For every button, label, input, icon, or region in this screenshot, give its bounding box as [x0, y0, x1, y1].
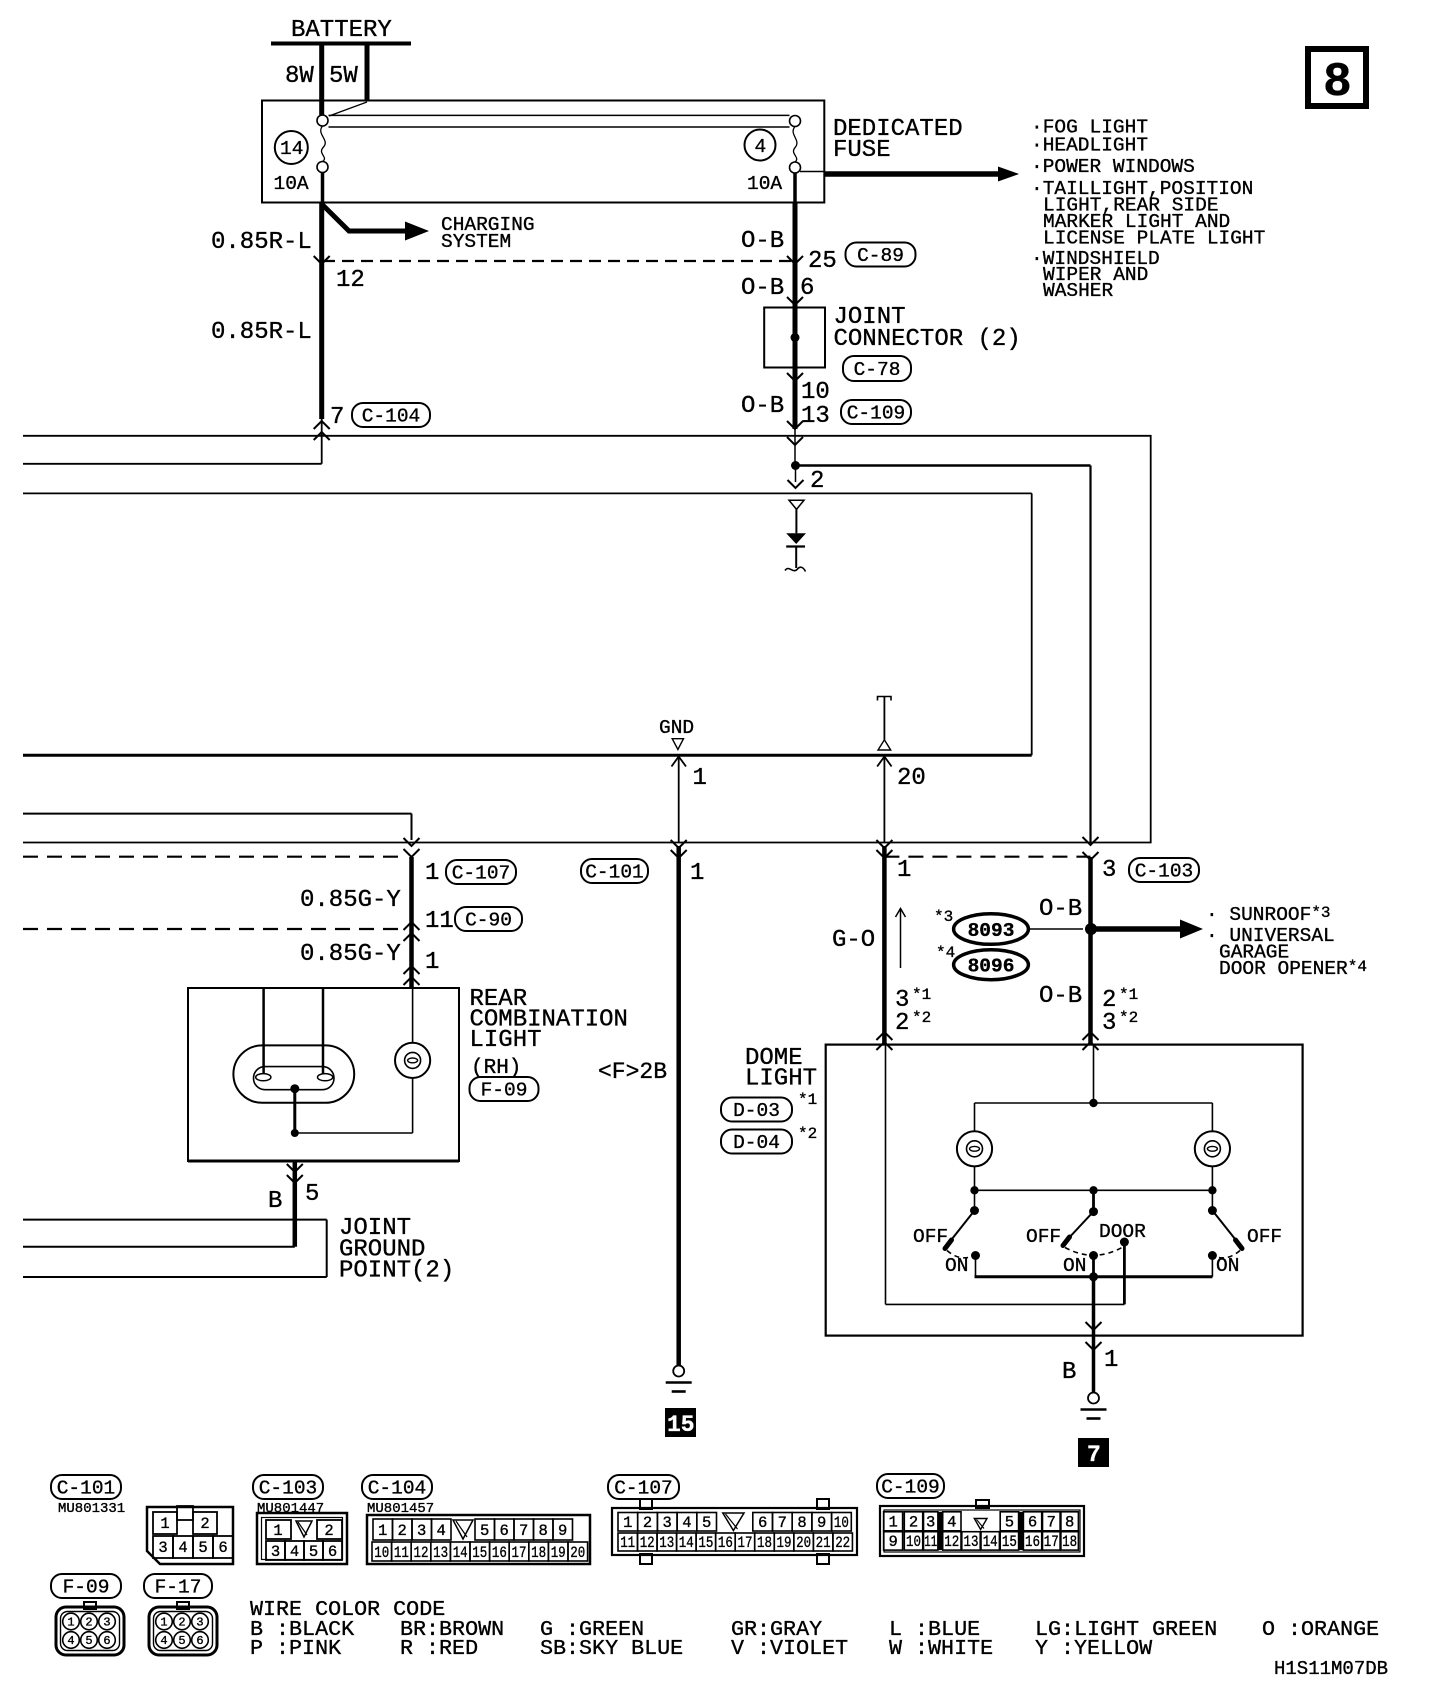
- svg-text:15: 15: [1002, 1533, 1017, 1551]
- wire 0.85G-Y upper: [409, 857, 414, 988]
- direction arrow beside G-O: [896, 909, 906, 969]
- switch right: [1208, 1190, 1282, 1277]
- node dome feed: [1089, 1099, 1097, 1107]
- svg-text:1: 1: [888, 1514, 897, 1532]
- svg-text:4: 4: [682, 1514, 691, 1532]
- svg-text:17: 17: [738, 1534, 753, 1552]
- svg-text:14: 14: [453, 1544, 468, 1562]
- label 0.85R-L upper: [211, 229, 312, 256]
- svg-text:17: 17: [1044, 1533, 1059, 1551]
- connector C-101 drawing: [147, 1506, 233, 1564]
- chevrons on C-101 wire: [671, 840, 687, 858]
- svg-text:G-O: G-O: [832, 927, 875, 954]
- fuse 4: [745, 116, 825, 203]
- svg-text:R :RED: R :RED: [400, 1636, 478, 1661]
- dedicated fuse label: [833, 116, 963, 164]
- crossing chevron at R-L wire: [314, 256, 330, 264]
- svg-text:0.85G-Y: 0.85G-Y: [300, 887, 401, 914]
- svg-text:<F>2B: <F>2B: [598, 1059, 667, 1085]
- pin label 10: [801, 379, 830, 406]
- svg-text:2: 2: [909, 1514, 918, 1532]
- option tag 8096: [954, 950, 1029, 980]
- svg-text:ON: ON: [945, 1255, 968, 1277]
- svg-text:20: 20: [796, 1534, 811, 1552]
- charging system arrow: [322, 204, 535, 253]
- wire C-104 pin7 stub to left: [23, 419, 322, 464]
- svg-text:10A: 10A: [747, 173, 782, 195]
- dashed line between dome wires: [884, 856, 1090, 858]
- svg-text:16: 16: [1025, 1533, 1040, 1551]
- wire to ETACS pin 2: [788, 466, 804, 489]
- document number: [1274, 1658, 1388, 1680]
- svg-text:WASHER: WASHER: [1043, 280, 1114, 302]
- label 0.85R-L lower: [211, 319, 312, 346]
- svg-text:16: 16: [718, 1534, 733, 1552]
- legend pill C-109: [877, 1474, 944, 1499]
- svg-text:C-101: C-101: [585, 862, 644, 884]
- dashed harness line at C-107: [23, 856, 403, 858]
- svg-text:H1S11M07DB: H1S11M07DB: [1274, 1658, 1388, 1680]
- svg-text:6: 6: [1028, 1514, 1037, 1532]
- pin label 11: [425, 908, 454, 935]
- dome lamp bus lower: [970, 1166, 1216, 1194]
- pin label 13: [801, 403, 830, 430]
- svg-text:5: 5: [305, 1181, 319, 1208]
- svg-text:6: 6: [500, 1522, 509, 1540]
- svg-text:POINT(2): POINT(2): [339, 1258, 454, 1285]
- svg-text:2: 2: [643, 1514, 652, 1532]
- dome switch common bus: [975, 1272, 1213, 1281]
- asterisk 2: [798, 1125, 817, 1143]
- svg-text:O-B: O-B: [1039, 896, 1082, 923]
- svg-text:7: 7: [330, 404, 344, 431]
- svg-text:2: 2: [324, 1522, 333, 1540]
- sunroof load list: [1206, 904, 1367, 980]
- pin labels 3*1 2*2 left: [895, 986, 931, 1037]
- svg-text:13: 13: [659, 1534, 674, 1552]
- legend part number MU801447: [257, 1501, 324, 1517]
- legend pill F-17: [144, 1574, 212, 1599]
- svg-text:FUSE: FUSE: [833, 137, 891, 164]
- svg-text:3: 3: [196, 1616, 203, 1630]
- svg-text:SB:SKY BLUE: SB:SKY BLUE: [540, 1636, 683, 1661]
- loop harness line around unit: [23, 436, 1151, 843]
- svg-text:OFF: OFF: [1247, 1226, 1282, 1248]
- svg-text:*2: *2: [1119, 1009, 1138, 1027]
- chevrons at rear light box top: [404, 966, 420, 985]
- arrow to sunroof loads: [1091, 920, 1203, 939]
- svg-text:0.85G-Y: 0.85G-Y: [300, 941, 401, 968]
- svg-text:C-109: C-109: [847, 403, 906, 425]
- connector pill C-109: [841, 400, 911, 425]
- svg-text:GND: GND: [659, 717, 694, 739]
- pin 1 label: [693, 765, 707, 792]
- pin 1 arrow (GND): [672, 756, 687, 842]
- svg-text:5: 5: [309, 1543, 318, 1561]
- svg-text:C-107: C-107: [452, 863, 511, 885]
- label G-O: [832, 927, 875, 954]
- arrow to dedicated fuse loads: [824, 167, 1019, 182]
- dome light box: [826, 1045, 1303, 1336]
- svg-text:7: 7: [1047, 1514, 1056, 1532]
- label O-B upper: [741, 228, 784, 255]
- pin 7 label: [330, 404, 344, 431]
- pin label 1 C-107: [425, 860, 439, 887]
- svg-text:18: 18: [531, 1544, 546, 1562]
- label 5W: [329, 63, 358, 90]
- connector pill F-09: [470, 1077, 539, 1102]
- svg-text:V :VIOLET: V :VIOLET: [731, 1636, 848, 1661]
- svg-text:6: 6: [758, 1514, 767, 1532]
- svg-text:2: 2: [895, 1010, 909, 1037]
- tail lamp dual filament bulb: [233, 1045, 354, 1102]
- wire to side marker lamp: [295, 1078, 413, 1133]
- pin label 1 C-101: [690, 860, 704, 887]
- svg-text:5: 5: [1005, 1514, 1014, 1532]
- pin label 3 dome: [1102, 857, 1116, 884]
- svg-text:C-103: C-103: [1135, 861, 1194, 883]
- node at bulb base: [290, 1084, 299, 1093]
- pin label 6: [800, 275, 814, 302]
- svg-text:D-04: D-04: [733, 1132, 780, 1154]
- svg-text:C-109: C-109: [881, 1477, 940, 1499]
- GND label: [659, 717, 694, 750]
- svg-text:·HEADLIGHT: ·HEADLIGHT: [1031, 135, 1148, 157]
- svg-text:F-09: F-09: [481, 1080, 528, 1102]
- legend pill F-09: [51, 1574, 121, 1599]
- dome lamp right: [1195, 1131, 1230, 1166]
- wire 0.85R-L from fuse 14: [319, 203, 324, 420]
- battery bus bar: [271, 42, 411, 46]
- dome lamp bus upper: [975, 1103, 1213, 1131]
- svg-text:11: 11: [924, 1533, 937, 1551]
- svg-text:10A: 10A: [274, 173, 309, 195]
- svg-text:C-103: C-103: [259, 1478, 318, 1500]
- svg-text:5: 5: [85, 1634, 92, 1648]
- pin labels 2*1 3*2 right: [1102, 986, 1138, 1037]
- fuse box: [262, 101, 824, 203]
- svg-text:W :WHITE: W :WHITE: [889, 1636, 993, 1661]
- asterisk 3: [934, 908, 953, 926]
- svg-text:P :PINK: P :PINK: [250, 1636, 341, 1661]
- connector F-17 drawing: [149, 1602, 217, 1655]
- svg-text:C-78: C-78: [854, 359, 901, 381]
- label O-B lower: [741, 393, 784, 420]
- connector pill C-103: [1129, 858, 1199, 883]
- svg-text:2: 2: [85, 1616, 92, 1630]
- chevrons at C-104 wire end: [314, 421, 330, 440]
- ground id box 15: [665, 1408, 696, 1438]
- svg-text:*3: *3: [934, 908, 953, 926]
- svg-text:8096: 8096: [968, 956, 1015, 978]
- svg-text:ON: ON: [1063, 1255, 1086, 1277]
- asterisk 4: [936, 944, 955, 962]
- connector pill D-04: [721, 1130, 792, 1155]
- svg-text:12: 12: [944, 1533, 959, 1551]
- svg-text:O-B: O-B: [1039, 983, 1082, 1010]
- fuse 14: [274, 115, 329, 203]
- svg-text:1: 1: [273, 1522, 282, 1540]
- node sunroof branch: [1085, 923, 1097, 935]
- svg-text:11: 11: [394, 1544, 409, 1562]
- pin label 12: [336, 267, 365, 294]
- svg-text:16: 16: [492, 1544, 507, 1562]
- svg-text:SYSTEM: SYSTEM: [441, 231, 511, 253]
- label 0.85G-Y lower: [300, 941, 401, 968]
- svg-text:18: 18: [1062, 1533, 1077, 1551]
- svg-text:4: 4: [290, 1543, 299, 1561]
- svg-text:8: 8: [539, 1522, 548, 1540]
- svg-text:DOOR: DOOR: [1099, 1221, 1146, 1243]
- svg-text:13: 13: [964, 1533, 979, 1551]
- svg-text:*2: *2: [798, 1125, 817, 1143]
- wire bulb base down: [293, 1089, 296, 1133]
- battery label: [291, 17, 392, 44]
- svg-text:6: 6: [218, 1539, 227, 1557]
- svg-text:7: 7: [1087, 1442, 1101, 1468]
- ground symbol 7: [1081, 1393, 1107, 1419]
- pin 20 internal symbol: [878, 697, 892, 751]
- wire thin to junction: [794, 429, 796, 466]
- label 8W: [285, 63, 314, 90]
- label O-B mid: [741, 275, 784, 302]
- wire lamp to box top: [412, 988, 414, 1043]
- svg-text:14: 14: [983, 1533, 998, 1551]
- svg-text:3: 3: [1102, 857, 1116, 884]
- svg-text:14: 14: [280, 138, 303, 160]
- pin label 5: [305, 1181, 319, 1208]
- svg-text:3: 3: [103, 1616, 110, 1630]
- svg-text:5: 5: [480, 1522, 489, 1540]
- chevrons on G-O wire top: [876, 840, 892, 858]
- svg-text:10: 10: [374, 1544, 389, 1562]
- svg-text:O :ORANGE: O :ORANGE: [1262, 1617, 1379, 1642]
- chevrons below rear light box: [287, 1164, 303, 1183]
- node at rear light internal junction: [291, 1129, 299, 1137]
- svg-text:12: 12: [640, 1534, 655, 1552]
- svg-text:LIGHT: LIGHT: [745, 1066, 817, 1093]
- diode D in unit: [785, 500, 806, 571]
- connector pill C-78: [843, 356, 911, 381]
- svg-text:*1: *1: [912, 986, 931, 1004]
- svg-text:6: 6: [103, 1634, 110, 1648]
- pin 20 arrow: [877, 756, 891, 842]
- svg-text:19: 19: [777, 1534, 792, 1552]
- svg-text:8093: 8093: [968, 920, 1015, 942]
- svg-text:C-107: C-107: [614, 1478, 673, 1500]
- svg-text:5: 5: [702, 1514, 711, 1532]
- switch middle: [1026, 1190, 1146, 1277]
- svg-text:13: 13: [433, 1544, 448, 1562]
- side marker lamp bulb: [395, 1043, 430, 1078]
- svg-text:20: 20: [897, 765, 926, 792]
- chevron below joint connector: [787, 373, 803, 381]
- svg-text:O-B: O-B: [741, 228, 784, 255]
- svg-text:LICENSE PLATE LIGHT: LICENSE PLATE LIGHT: [1043, 228, 1265, 250]
- wire color code row 1: [250, 1617, 1379, 1642]
- svg-text:2: 2: [398, 1522, 407, 1540]
- svg-text:7: 7: [778, 1514, 787, 1532]
- svg-text:6: 6: [328, 1543, 337, 1561]
- pin label 1 dome: [897, 857, 911, 884]
- svg-text:O-B: O-B: [741, 275, 784, 302]
- label O-B dome lower: [1039, 983, 1082, 1010]
- connector C-104 drawing: [367, 1515, 590, 1564]
- wire 5W battery feed: [365, 45, 370, 101]
- svg-text:8: 8: [797, 1514, 806, 1532]
- svg-text:4: 4: [67, 1634, 74, 1648]
- svg-text:3: 3: [663, 1514, 672, 1532]
- svg-text:F-17: F-17: [155, 1577, 202, 1599]
- label B dome: [1062, 1359, 1076, 1386]
- svg-text:19: 19: [551, 1544, 566, 1562]
- connector pill C-107: [446, 860, 516, 885]
- svg-text:3: 3: [926, 1514, 935, 1532]
- svg-text:8: 8: [1323, 56, 1352, 110]
- connector F-09 drawing: [56, 1602, 124, 1655]
- harness tag F 2B: [598, 1059, 667, 1085]
- svg-text:7: 7: [519, 1522, 528, 1540]
- svg-text:· SUNROOF*3: · SUNROOF*3: [1206, 904, 1331, 926]
- wire B to joint ground: [293, 1161, 298, 1247]
- svg-text:8: 8: [1065, 1514, 1074, 1532]
- svg-text:10: 10: [801, 379, 830, 406]
- svg-text:1: 1: [425, 860, 439, 887]
- svg-text:4: 4: [437, 1522, 446, 1540]
- svg-text:15: 15: [667, 1412, 695, 1438]
- svg-text:22: 22: [835, 1534, 850, 1552]
- svg-text:LIGHT: LIGHT: [470, 1027, 542, 1054]
- rear light label: [470, 986, 628, 1080]
- svg-text:5: 5: [178, 1634, 185, 1648]
- svg-text:1: 1: [425, 949, 439, 976]
- chevrons at C-107 pin1: [404, 838, 420, 857]
- connector C-109 drawing: [880, 1500, 1084, 1556]
- svg-text:0.85R-L: 0.85R-L: [211, 319, 312, 346]
- svg-text:MU801447: MU801447: [257, 1501, 324, 1517]
- svg-text:4: 4: [178, 1539, 187, 1557]
- dome light label: [745, 1045, 817, 1093]
- joint connector C-78: [764, 296, 1021, 372]
- svg-text:*1: *1: [798, 1091, 817, 1109]
- wire O-B to C-109: [793, 381, 798, 429]
- svg-text:MU801331: MU801331: [58, 1501, 125, 1517]
- svg-text:1: 1: [378, 1522, 387, 1540]
- connector C-103 drawing: [257, 1513, 347, 1564]
- svg-text:C-101: C-101: [57, 1478, 116, 1500]
- crossing chevron at O-B wire: [787, 256, 803, 264]
- pin label 25: [808, 248, 837, 275]
- svg-text:*2: *2: [912, 1009, 931, 1027]
- svg-text:10: 10: [834, 1514, 849, 1532]
- svg-text:17: 17: [512, 1544, 527, 1562]
- svg-text:4: 4: [160, 1634, 167, 1648]
- svg-text:*4: *4: [936, 944, 955, 962]
- dedicated fuse load list: [1031, 117, 1265, 303]
- joint ground point: [23, 1220, 327, 1277]
- wire color code row 2: [250, 1636, 1152, 1661]
- svg-text:1: 1: [693, 765, 707, 792]
- svg-text:DOOR OPENER*4: DOOR OPENER*4: [1219, 958, 1367, 980]
- svg-text:15: 15: [472, 1544, 487, 1562]
- svg-text:·POWER WINDOWS: ·POWER WINDOWS: [1031, 156, 1195, 178]
- legend pill C-103: [253, 1475, 323, 1500]
- svg-text:D-03: D-03: [733, 1100, 780, 1122]
- svg-text:C-104: C-104: [368, 1478, 427, 1500]
- pin 20 label: [897, 765, 926, 792]
- svg-text:21: 21: [816, 1534, 831, 1552]
- svg-text:25: 25: [808, 248, 837, 275]
- switch left: [913, 1190, 980, 1277]
- svg-text:F-09: F-09: [63, 1577, 110, 1599]
- chevron above joint connector: [787, 297, 803, 305]
- svg-text:3: 3: [1102, 1010, 1116, 1037]
- line option tag to node: [1028, 928, 1083, 930]
- svg-text:C-89: C-89: [857, 245, 904, 267]
- crossing chevron below loop line: [787, 437, 803, 445]
- wire dome to ground: [1092, 1277, 1096, 1392]
- label O-B dome upper: [1039, 896, 1082, 923]
- chevrons on O-B dome wire: [1083, 837, 1099, 860]
- svg-text:14: 14: [679, 1534, 694, 1552]
- wire 8W battery feed: [319, 45, 324, 115]
- ground id box 7: [1078, 1438, 1109, 1468]
- ETACS unit box: [23, 493, 1032, 755]
- connector pill C-101: [581, 859, 648, 884]
- svg-text:9: 9: [888, 1533, 897, 1551]
- svg-text:3: 3: [417, 1522, 426, 1540]
- svg-text:11: 11: [425, 908, 454, 935]
- legend pill C-104: [362, 1475, 432, 1500]
- svg-text:2: 2: [178, 1616, 185, 1630]
- wire O-B inside dome: [1093, 1045, 1095, 1103]
- label B: [268, 1188, 282, 1215]
- svg-text:C-104: C-104: [362, 406, 421, 428]
- svg-text:B: B: [268, 1188, 282, 1215]
- legend pill C-101: [51, 1475, 121, 1500]
- pin label 1 lower: [425, 949, 439, 976]
- svg-text:1: 1: [160, 1515, 169, 1533]
- fuse block internal bus: [329, 102, 790, 127]
- chevrons at dome box top: [876, 1032, 1098, 1050]
- asterisk 1: [798, 1091, 817, 1109]
- svg-text:CONNECTOR (2): CONNECTOR (2): [834, 326, 1021, 353]
- connector pill C-89: [846, 243, 916, 268]
- svg-text:*1: *1: [1119, 986, 1138, 1004]
- svg-text:ON: ON: [1216, 1255, 1239, 1277]
- wire O-B from fuse 4: [793, 203, 798, 430]
- chevrons at dome box bottom: [1086, 1322, 1102, 1350]
- svg-text:4: 4: [947, 1514, 956, 1532]
- rear combination light box: [188, 988, 459, 1161]
- dome lamp left: [957, 1131, 992, 1166]
- svg-text:1: 1: [1104, 1347, 1118, 1374]
- svg-text:0.85R-L: 0.85R-L: [211, 229, 312, 256]
- option tag 8093: [954, 914, 1029, 945]
- svg-text:OFF: OFF: [1026, 1226, 1061, 1248]
- pin label 1 dome ground: [1104, 1347, 1118, 1374]
- svg-text:BATTERY: BATTERY: [291, 17, 392, 44]
- wire O-B to dome light pin3: [1088, 857, 1093, 1045]
- svg-text:C-90: C-90: [465, 910, 512, 932]
- svg-text:20: 20: [570, 1544, 585, 1562]
- wire color code heading: [250, 1597, 445, 1622]
- wire G-O inside dome to door contact: [886, 1045, 1125, 1305]
- chevrons at C-90 crossing: [404, 922, 420, 941]
- svg-text:1: 1: [690, 860, 704, 887]
- page number box 8: [1308, 49, 1366, 110]
- node O-B junction: [791, 461, 800, 470]
